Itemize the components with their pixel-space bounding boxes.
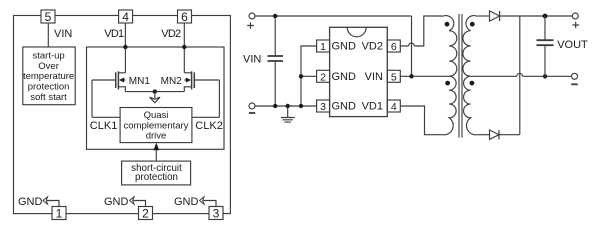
wire secondary bottom to diode <box>477 134 489 136</box>
wire pin5 VIN to primary center tap <box>400 75 449 77</box>
capacitor input <box>268 16 284 106</box>
svg-text:GND: GND <box>332 101 357 113</box>
svg-text:3: 3 <box>320 101 326 113</box>
pin 2 (bottom) <box>139 207 153 221</box>
wire pin6 VD2 to transformer primary top (hump over VIN drop) <box>400 16 442 46</box>
wire secondary center tap to - output (hump over riser) <box>471 73 572 76</box>
short-circuit protection block <box>122 161 191 185</box>
transistor MN1 <box>92 71 125 91</box>
wire D1 cathode to + output <box>500 15 573 17</box>
wire VD2: pin6 to MN2 drain <box>183 23 185 73</box>
capacitor output <box>537 16 554 76</box>
pin 3 (bottom) <box>209 207 223 221</box>
IC pin 1 box <box>317 40 330 53</box>
svg-text:3: 3 <box>213 207 220 221</box>
wire short-circuit to drive block with up arrow <box>153 143 159 162</box>
transformer secondary winding lower <box>464 76 478 135</box>
svg-text:VIN: VIN <box>365 71 383 83</box>
transformer T1 primary winding upper <box>443 16 457 77</box>
svg-text:VD2: VD2 <box>362 41 383 53</box>
svg-text:MN1: MN1 <box>129 76 151 87</box>
svg-text:VD2: VD2 <box>161 28 181 40</box>
svg-text:GND: GND <box>18 196 43 208</box>
node output + dot <box>543 14 548 19</box>
svg-text:4: 4 <box>122 10 129 24</box>
transformer phase dot primary lower <box>445 81 450 86</box>
wire common source rail <box>125 91 184 93</box>
svg-text:drive: drive <box>146 131 167 142</box>
svg-text:temperature: temperature <box>23 71 74 82</box>
wire pin4 VD1 to transformer primary bottom <box>400 106 442 135</box>
svg-text:4: 4 <box>391 101 397 113</box>
input + terminal <box>249 13 255 19</box>
ground symbol <box>281 106 295 122</box>
svg-text:2: 2 <box>142 207 149 221</box>
node output cap bottom dot <box>543 74 547 78</box>
svg-text:5: 5 <box>45 10 52 24</box>
transformer phase dot secondary lower <box>470 81 475 86</box>
wire pin5 to start-up block <box>47 23 49 47</box>
svg-text:VD1: VD1 <box>362 101 383 113</box>
label GND pin1 with arrow <box>18 196 59 208</box>
node VIN junction dot <box>409 74 413 78</box>
pin 4 (top) <box>119 10 133 24</box>
transformer T1 primary winding lower <box>443 76 457 135</box>
node ground dot <box>286 104 290 108</box>
label GND pin3 with arrow <box>174 196 216 208</box>
IC pin 3 box <box>317 100 330 113</box>
svg-text:protection: protection <box>135 172 178 183</box>
svg-text:VD1: VD1 <box>104 28 124 40</box>
svg-text:VOUT: VOUT <box>557 39 588 51</box>
label GND pin2 with arrow <box>104 196 146 208</box>
wire pins 1 and 2 to ground rail <box>301 46 317 106</box>
IC package body U1 <box>330 27 388 116</box>
transformer phase dot secondary upper <box>470 22 475 27</box>
svg-text:GND: GND <box>174 196 199 208</box>
svg-text:CLK1: CLK1 <box>90 120 118 132</box>
node VD2 junction dot <box>182 45 186 49</box>
inner sub-circuit box <box>87 47 225 149</box>
diode D1 <box>490 11 500 21</box>
wire top input rail <box>255 15 412 17</box>
output - terminal <box>572 73 578 79</box>
svg-text:MN2: MN2 <box>161 76 183 87</box>
pin 6 (top) <box>178 10 192 24</box>
transformer phase dot primary upper <box>445 22 450 27</box>
start-up / over temperature protection / soft start block <box>23 47 75 105</box>
svg-text:GND: GND <box>104 196 129 208</box>
pin 1 (bottom) <box>52 207 66 221</box>
wire D2 return riser <box>519 16 521 135</box>
wire CLK2 from drive block to MN2 gate <box>192 80 220 117</box>
svg-text:1: 1 <box>56 207 63 221</box>
ground arrow below source node <box>150 92 160 103</box>
node pin2 tie dot <box>299 74 303 78</box>
svg-text:soft start: soft start <box>30 92 67 103</box>
svg-text:start-up: start-up <box>32 51 64 62</box>
wire bottom input rail <box>255 105 317 107</box>
quasi complementary drive block <box>120 108 192 143</box>
node rail tie dot <box>299 104 303 108</box>
svg-text:protection: protection <box>28 82 70 93</box>
svg-text:CLK2: CLK2 <box>195 120 223 132</box>
IC pin 6 box <box>387 40 400 53</box>
svg-text:6: 6 <box>181 10 188 24</box>
node input cap bottom dot <box>273 104 277 108</box>
IC pin 4 box <box>387 100 400 113</box>
wire VIN drop to pin5 <box>411 16 413 76</box>
wire VD1: pin4 to MN1 drain <box>124 23 126 73</box>
transformer secondary winding upper <box>463 16 477 77</box>
outer IC block-diagram boundary box <box>14 16 231 214</box>
node input cap top dot <box>273 14 277 18</box>
svg-text:6: 6 <box>391 41 397 53</box>
transformer core <box>459 14 462 138</box>
pin 5 (top) <box>41 10 55 24</box>
IC pin 2 box <box>317 70 330 83</box>
svg-text:1: 1 <box>320 41 326 53</box>
svg-text:2: 2 <box>320 72 326 84</box>
diode D2 <box>490 130 500 139</box>
node VD1 junction dot <box>123 45 127 49</box>
wire D2 cathode to riser <box>499 134 520 136</box>
IC pin 5 box <box>387 70 400 83</box>
wire CLK1 from drive block to MN1 gate <box>92 80 120 117</box>
svg-text:VIN: VIN <box>54 28 72 40</box>
output + terminal <box>572 13 578 19</box>
node source junction dot <box>153 89 157 93</box>
wire secondary top to diode <box>477 15 489 17</box>
svg-text:GND: GND <box>332 41 357 53</box>
svg-text:GND: GND <box>332 71 357 83</box>
transistor MN2 <box>184 71 219 91</box>
input - terminal <box>249 103 255 109</box>
svg-text:5: 5 <box>391 72 397 84</box>
svg-text:VIN: VIN <box>243 54 261 66</box>
